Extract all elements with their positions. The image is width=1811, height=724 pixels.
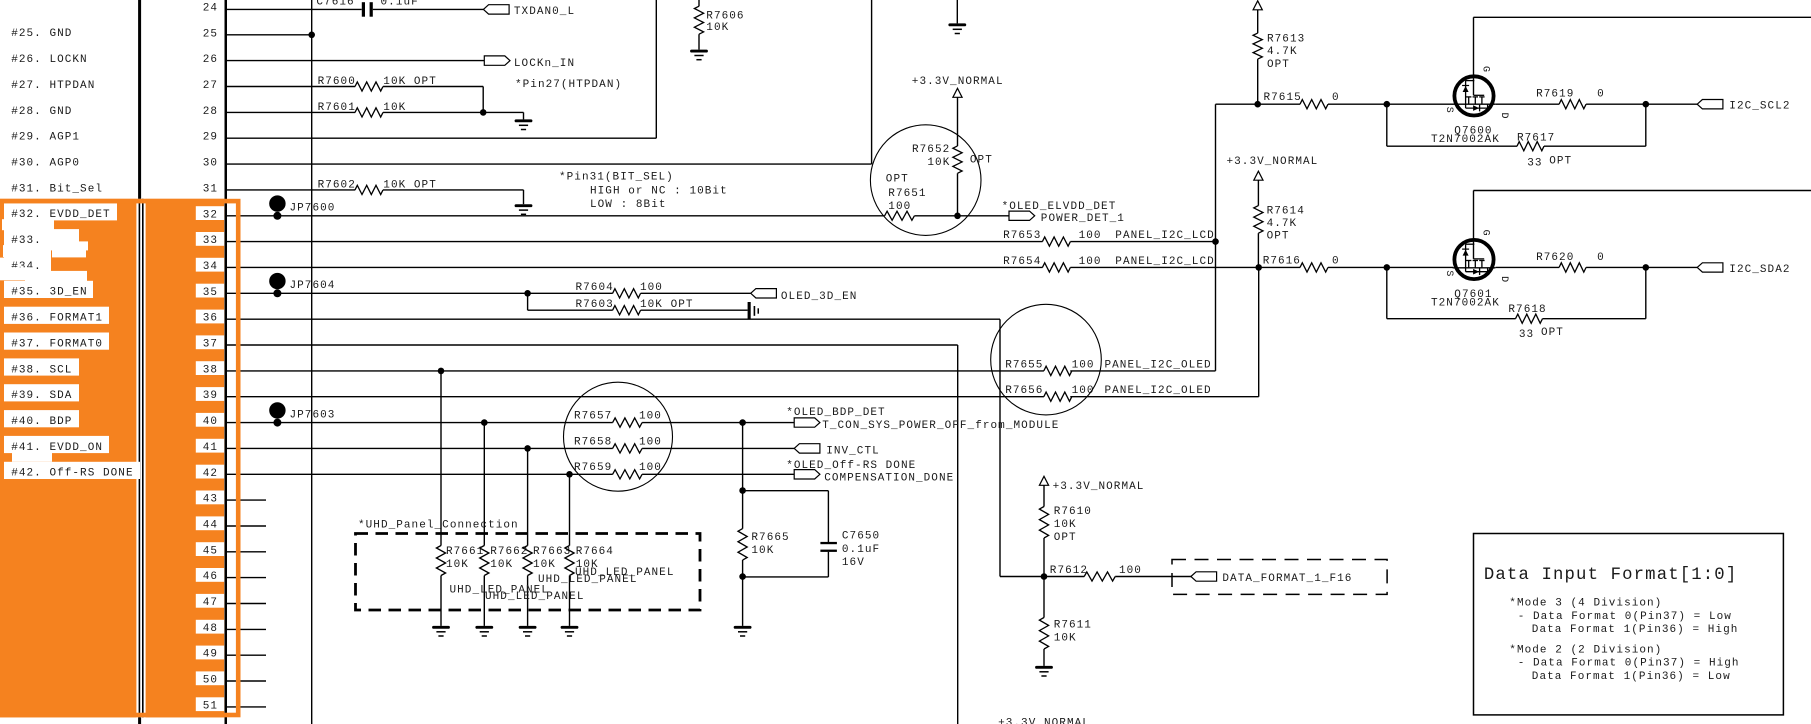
resistor R7655 [1005,359,1094,375]
wire pin 26 to LOCKn_IN [226,60,484,62]
svg-text:100: 100 [888,201,911,213]
net label PANEL_I2C_OLED (SCL) [1105,359,1212,371]
pin label #42. Off-RS DONE [4,452,140,480]
wire pin 29 / block border bottom [226,137,656,139]
junction pin40/R7662 [481,419,488,426]
svg-text:OPT: OPT [1054,532,1077,544]
wire to R7662 [483,423,485,546]
svg-text:OLED_3D_EN: OLED_3D_EN [781,291,858,303]
orange highlight border [0,201,238,715]
wire arrow to R7613 [1257,10,1259,33]
junction pin38/R7661 [438,368,445,375]
svg-text:#39. SDA: #39. SDA [11,390,72,402]
svg-text:T2N7002AK: T2N7002AK [1431,297,1500,309]
connector body line x=226 [225,0,228,724]
resistor R7620 [1536,252,1605,272]
svg-text:29: 29 [203,132,218,144]
junction pin 25 / GND rail [308,32,315,39]
svg-text:#26. LOCKN: #26. LOCKN [11,54,88,66]
ground pin28 net [515,119,533,129]
pin number 26 [203,54,218,66]
svg-text:LOW : 8Bit: LOW : 8Bit [590,199,667,211]
resistor R7610 [1039,506,1092,544]
svg-text:26: 26 [203,54,218,66]
svg-text:+3.3V NORMAL: +3.3V NORMAL [998,717,1090,724]
svg-text:- Data Format 0(Pin37) = High: - Data Format 0(Pin37) = High [1518,658,1740,670]
svg-text:+3.3V_NORMAL: +3.3V_NORMAL [1053,481,1145,493]
svg-text:#27. HTPDAN: #27. HTPDAN [11,80,95,92]
wire riser to SDA node [1645,267,1647,318]
svg-text:100: 100 [1079,256,1102,268]
wire down to R7603 [527,293,529,310]
net flag DATA_FORMAT_1_F16 [1191,572,1353,585]
pin label #33. [0,229,79,268]
svg-text:I2C_SCL2: I2C_SCL2 [1729,101,1790,113]
svg-text:10K: 10K [751,545,774,557]
wire R7612 to DATA_FORMAT flag [1115,576,1191,578]
wire node to R7616 [1259,266,1300,268]
pin label #31. Bit_Sel [11,183,103,195]
note Pin31 BIT_SEL [559,171,728,211]
wire pin 38 [226,370,1044,372]
svg-text:33: 33 [1519,329,1534,341]
svg-text:R7654: R7654 [1003,256,1041,268]
svg-text:24: 24 [203,3,218,15]
svg-text:100: 100 [640,282,663,294]
resistor R7619 [1536,88,1605,108]
ground top center [948,23,966,33]
net label PANEL_I2C_LCD (SDA) [1115,256,1214,268]
capacitor C7616 [316,0,418,17]
pin label #29. AGP1 [11,132,80,144]
svg-text:C7650: C7650 [842,531,880,543]
power +3.3V_NORMAL (R7652) [912,76,1004,98]
note Pin27 [515,79,622,91]
junction R7620/R7618 [1643,264,1650,271]
resistor R7658 [574,436,662,453]
pin label #37. FORMAT0 [4,333,109,351]
pin number 48 [196,620,224,635]
pin number 35 [196,284,224,299]
wire R7617 to riser [1544,145,1646,147]
transistor Q7600 T2N7002AK [1431,17,1509,146]
wire node to R7615 [1216,103,1301,105]
circle annotation R7651/R7652 [870,125,981,236]
power +3.3V_NORMAL (R7614) [1227,156,1319,180]
junction Q7601 source node [1384,264,1391,271]
circle annotation R7657/R7658/R7659 [564,382,673,491]
wire pin 30 [226,163,872,165]
junction R7651/R7652 [954,213,961,220]
pin number 24 [203,3,218,15]
svg-text:R7601: R7601 [318,102,356,114]
svg-text:27: 27 [203,80,218,92]
svg-text:+3.3V_NORMAL: +3.3V_NORMAL [912,76,1004,88]
wire R7603 to NC bar [641,309,748,311]
pin label #34. [4,241,88,282]
net flag POWER_DET_1 [1002,201,1125,225]
svg-text:*Mode 3 (4 Division): *Mode 3 (4 Division) [1509,598,1662,610]
wire R7600 to corner [383,86,483,88]
wire R7619 to I2C_SCL2 [1586,103,1697,105]
svg-text:R7657: R7657 [574,411,612,423]
svg-text:TXDAN0_L: TXDAN0_L [514,6,575,18]
pin number 39 [196,387,224,402]
jumper JP7603 [269,402,335,426]
note box Data Input Format [1474,534,1784,715]
wire pin 36 vertical [999,319,1001,576]
svg-text:R7618: R7618 [1508,304,1546,316]
svg-text:*UHD_Panel_Connection: *UHD_Panel_Connection [358,520,519,532]
wire to R7665 [742,491,744,529]
wire to R7617 [1387,145,1517,147]
pin label #25. GND [11,28,72,40]
svg-text:JP7603: JP7603 [290,410,336,422]
pin label #36. FORMAT1 [4,307,109,325]
svg-text:#38. SCL: #38. SCL [11,364,72,376]
resistor R7615 [1264,92,1340,109]
wire to R7663 [527,448,529,545]
resistor R7600 [318,76,437,91]
wire R7618 to riser [1543,318,1646,320]
dashed box DATA_FORMAT_1_F16 [1172,560,1387,595]
svg-text:+3.3V_NORMAL: +3.3V_NORMAL [1227,156,1319,168]
svg-text:100: 100 [1072,359,1095,371]
wire pin 40 [226,422,613,424]
svg-text:R7655: R7655 [1005,359,1043,371]
svg-text:T_CON_SYS_POWER_OFF_from_MODUL: T_CON_SYS_POWER_OFF_from_MODULE [822,420,1059,432]
svg-text:D: D [1498,276,1509,283]
wire C7650 top stem [827,491,829,543]
svg-text:*OLED_BDP_DET: *OLED_BDP_DET [786,407,885,419]
capacitor C7650 [820,531,880,569]
orange highlight fill [0,199,224,718]
svg-text:R7619: R7619 [1536,88,1574,100]
svg-text:UHD_LED_PANEL: UHD_LED_PANEL [485,591,584,603]
resistor R7611 [1039,618,1092,650]
svg-text:30: 30 [203,158,218,170]
wire pin 30 vertical to top [871,0,873,164]
svg-text:R7616: R7616 [1263,256,1301,268]
ground R7606 [690,50,708,60]
svg-text:*OLED_Off-RS DONE: *OLED_Off-RS DONE [786,460,916,472]
pin number 44 [196,516,224,531]
svg-text:*Mode 2 (2 Division): *Mode 2 (2 Division) [1509,645,1662,657]
wire R7653 to node [1070,241,1215,243]
junction R7613/R7615 [1254,101,1261,108]
svg-text:100: 100 [1119,565,1142,577]
resistor R7665 [738,529,790,561]
pin number 45 [196,542,224,557]
wire top to C7650 [743,490,829,492]
svg-text:R7651: R7651 [888,188,926,200]
resistor R7618 [1508,304,1564,341]
svg-text:R7604: R7604 [576,282,614,294]
svg-text:47: 47 [203,597,218,609]
wire pin 42 [226,473,613,475]
pin label #28. GND [11,106,72,118]
svg-text:*OLED_ELVDD_DET: *OLED_ELVDD_DET [1002,201,1117,213]
wire pin 48 stub [226,628,266,630]
svg-text:36: 36 [203,313,218,325]
svg-text:100: 100 [639,436,662,448]
pin number 49 [196,646,224,661]
svg-text:R7653: R7653 [1003,230,1041,242]
jumper JP7600 [269,195,335,219]
pin label #30. AGP0 [11,158,80,170]
svg-text:R7617: R7617 [1517,133,1555,145]
pin number 51 [196,697,224,712]
svg-text:OPT: OPT [1267,230,1290,242]
wire arrow to R7614 [1257,180,1259,206]
transistor Q7601 T2N7002AK [1431,191,1509,310]
svg-text:42: 42 [203,468,218,480]
junction R7665/C7650 bottom [739,573,746,580]
svg-text:R7620: R7620 [1536,252,1574,264]
junction pin42/R7664 [566,471,573,478]
net label +3.3V NORMAL bottom (clipped) [998,717,1090,724]
svg-text:10K: 10K [533,559,556,571]
svg-text:OPT: OPT [1541,327,1564,339]
net labels UHD_LED_PANEL [450,567,675,603]
wire R7665 to bottom node [742,560,744,577]
resistor R7661 [436,546,484,576]
wire Q7600 drain to R7619 [1496,103,1560,105]
svg-text:10K: 10K [446,559,469,571]
power arrow R7613 top [1253,1,1262,10]
pin number 32 [196,206,224,221]
wire pin 35 [226,292,613,294]
svg-text:34: 34 [203,261,218,273]
resistor R7662 [480,546,529,576]
junction R7600/R7601 [480,109,487,116]
pin number 47 [196,594,224,609]
junction R7610/R7611/R7612 [1041,573,1048,580]
svg-text:OPT: OPT [1267,59,1290,71]
svg-text:R7659: R7659 [574,462,612,474]
wire pin 28 to R7601 [226,111,355,113]
wire R7654 to node [1070,266,1258,268]
wire to R7661 [440,371,442,546]
junction Q7600 source node [1384,101,1391,108]
wire riser to SCL node [1645,104,1647,146]
wire pin 47 stub [226,603,266,605]
power +3.3V_NORMAL (R7610) [1039,476,1144,493]
wire Q7601 drain to R7620 [1496,266,1560,268]
svg-text:0: 0 [1332,92,1340,104]
pin number 31 [203,183,218,195]
svg-text:0: 0 [1332,256,1340,268]
svg-text:LOCKn_IN: LOCKn_IN [514,58,575,70]
svg-text:#25. GND: #25. GND [11,28,72,40]
svg-text:0: 0 [1597,88,1605,100]
resistor R7651 [885,173,927,220]
svg-text:DATA_FORMAT_1_F16: DATA_FORMAT_1_F16 [1222,573,1352,585]
svg-text:- Data Format 0(Pin37) = Low: - Data Format 0(Pin37) = Low [1518,611,1732,623]
resistor R7603 [528,299,694,315]
net flag TXDAN0_L [483,5,575,18]
resistor R7612 [1050,565,1142,581]
pin number 36 [196,310,224,325]
wire pin 39 [226,396,1044,398]
ground R7663 [519,626,537,636]
svg-text:D: D [1498,113,1509,120]
junction pin41/R7663 [524,445,531,452]
svg-text:37: 37 [203,339,218,351]
wire R7664 to ground [569,576,571,626]
pin number 30 [203,158,218,170]
wire pin 25 [226,34,312,36]
wire R7604 to OLED_3D_EN [641,292,751,294]
svg-text:R7664: R7664 [576,546,614,558]
svg-text:35: 35 [203,287,218,299]
pin label #40. BDP [4,410,79,428]
pin number 29 [203,132,218,144]
pin number 34 [196,258,224,273]
net label PANEL_I2C_LCD (SCL) [1115,230,1214,242]
svg-text:OPT: OPT [886,173,909,185]
svg-text:28: 28 [203,106,218,118]
block border right edge [655,0,657,138]
wire to R7618 [1387,318,1516,320]
svg-text:4.7K: 4.7K [1267,46,1298,58]
svg-text:10K: 10K [927,157,950,169]
junction pin40/R7665 [739,419,746,426]
svg-text:#30. AGP0: #30. AGP0 [11,158,80,170]
wire pin 34 to R7654 [226,266,1043,268]
wire pin 37 vertical to bottom [957,345,959,724]
pin number 43 [196,491,224,506]
svg-text:R7661: R7661 [446,546,484,558]
pin label #39. SDA [4,384,79,402]
svg-text:#31. Bit_Sel: #31. Bit_Sel [11,183,103,195]
svg-text:JP7604: JP7604 [290,280,336,292]
svg-text:*Pin27(HTPDAN): *Pin27(HTPDAN) [515,79,622,91]
svg-text:R7665: R7665 [751,532,789,544]
resistor R7613 [1253,33,1305,71]
svg-text:R7612: R7612 [1050,565,1088,577]
svg-text:10K: 10K [490,559,513,571]
dashed box UHD_Panel_Connection [356,520,701,610]
svg-text:S: S [1443,270,1454,277]
wire R7663 to ground [527,576,529,626]
pin label #38. SCL [4,358,79,376]
svg-text:I2C_SDA2: I2C_SDA2 [1729,264,1790,276]
wire R7615 to Q7600 [1328,103,1453,105]
pin number 40 [196,413,224,428]
pin label #41. EVDD_ON [4,436,109,454]
resistor R7664 [565,546,614,576]
svg-text:OPT: OPT [1549,155,1572,167]
wire riser top segment [1215,104,1217,241]
resistor R7617 [1517,133,1572,170]
wire pin 45 stub [226,551,266,553]
wire pin 37 [226,344,958,346]
junction R7619/R7617 [1643,101,1650,108]
wire R7616 to Q7601 [1328,266,1453,268]
svg-text:33: 33 [1527,158,1542,170]
wire top ground stem [956,0,958,23]
svg-text:10K OPT: 10K OPT [640,299,694,311]
ground R7661 [432,626,450,636]
svg-text:POWER_DET_1: POWER_DET_1 [1041,213,1125,225]
svg-text:PANEL_I2C_LCD: PANEL_I2C_LCD [1115,230,1214,242]
ground R7665 [734,626,752,636]
wire pin 31 to R7602 [226,189,355,191]
svg-text:R7610: R7610 [1054,506,1092,518]
svg-text:10K: 10K [1054,519,1077,531]
wire to R7664 [569,474,571,545]
wire R7602 to ground [383,189,524,191]
wire R7655 to riser [1070,370,1215,372]
svg-text:10K: 10K [1054,632,1077,644]
svg-text:43: 43 [203,494,218,506]
pin number 33 [196,232,224,247]
wire R7659 to COMPENSATION_DONE [642,473,794,475]
svg-text:41: 41 [203,442,218,454]
svg-text:32: 32 [203,209,218,221]
svg-text:PANEL_I2C_LCD: PANEL_I2C_LCD [1115,256,1214,268]
part boundary line x=140 [136,0,145,724]
svg-text:50: 50 [203,675,218,687]
pin label #26. LOCKN [11,54,88,66]
wire riser SDA x=1259 [1258,267,1260,396]
wire R7601 to ground stem [383,111,524,113]
resistor R7653 [1003,230,1101,246]
wire bottom to node [743,576,829,578]
wire to ground [742,577,744,626]
pin number 42 [196,465,224,480]
svg-text:#36. FORMAT1: #36. FORMAT1 [11,313,103,325]
svg-text:51: 51 [203,700,218,712]
wire down to ground [523,112,525,119]
svg-text:#32. EVDD_DET: #32. EVDD_DET [11,209,110,221]
svg-text:R7656: R7656 [1005,385,1043,397]
wire C7616 to TXDAN0_L [373,8,484,10]
pin label #27. HTPDAN [11,80,95,92]
resistor R7663 [523,546,571,576]
wire R7658 to INV_CTL [642,447,794,449]
svg-text:OPT: OPT [970,155,993,167]
net flag I2C_SCL2 [1697,100,1790,113]
svg-text:R7613: R7613 [1267,33,1305,45]
resistor R7656 [1005,385,1094,401]
svg-text:UHD_LED_PANEL: UHD_LED_PANEL [538,574,637,586]
wire R7657 to T_CON flag [642,422,794,424]
wire pin 24 to C7616 [226,8,362,10]
svg-text:#42. Off-RS DONE: #42. Off-RS DONE [11,468,133,480]
svg-text:R7606: R7606 [706,11,744,23]
wire R7661 to ground [440,576,442,626]
circle annotation R7655/R7656 [991,304,1102,415]
resistor R7601 [318,102,407,117]
pin number 41 [196,439,224,454]
pin number 46 [196,568,224,583]
wire R7651 to POWER_DET_1 [914,215,1009,217]
wire pin 50 stub [226,680,266,682]
junction node I2C SDA [1255,264,1262,271]
net flag I2C_SDA2 [1697,263,1790,276]
pin number 27 [203,80,218,92]
ground R7611 [1035,666,1053,676]
pin number 28 [203,106,218,118]
wire node to R7611 [1043,577,1045,618]
wire node row [1000,576,1084,578]
wire R7606 to ground [698,34,700,49]
net flag INV_CTL [794,444,880,458]
wire pin 41 [226,447,613,449]
junction node I2C SCL [1212,238,1219,245]
